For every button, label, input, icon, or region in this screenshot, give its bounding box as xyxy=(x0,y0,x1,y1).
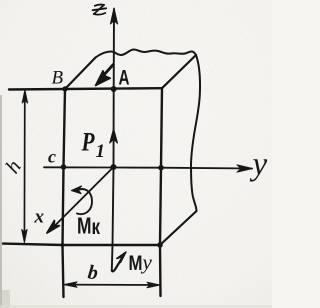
paper shading bottom-left xyxy=(0,95,2,308)
svg-text:M: M xyxy=(129,252,143,275)
svg-text:к: к xyxy=(92,216,101,239)
svg-text:1: 1 xyxy=(96,141,106,162)
wire: z line continued through lower face half xyxy=(112,167,114,271)
node centre C xyxy=(111,164,117,170)
wire: front face left edge + b extension xyxy=(63,89,66,297)
wire: front face right edge + b extension xyxy=(160,88,162,296)
node right mid xyxy=(158,165,164,171)
wire: torn back-top edge (wavy) xyxy=(96,50,197,58)
z axis xyxy=(113,9,116,167)
force arrow at A (tangential, pointing down-left) xyxy=(102,65,113,78)
moment My arrow xyxy=(112,257,123,272)
wire: top-right depth diagonal xyxy=(162,55,196,88)
y axis xyxy=(44,167,252,168)
node B corner xyxy=(62,86,67,91)
svg-text:y: y xyxy=(250,147,268,183)
wire: front face top edge with h extension line xyxy=(9,88,162,89)
node left mid xyxy=(61,164,67,170)
svg-text:P: P xyxy=(81,128,96,157)
dimension h line with arrows xyxy=(23,92,25,241)
moment Mk arc (torsion about x) xyxy=(77,189,93,214)
x axis xyxy=(49,167,114,232)
svg-text:c: c xyxy=(48,147,56,167)
wire: torn back-right edge (wavy) xyxy=(191,55,200,211)
svg-text:B: B xyxy=(52,68,64,89)
svg-text:y: y xyxy=(141,250,153,274)
svg-text:x: x xyxy=(34,207,45,228)
node bottom-right corner xyxy=(157,242,163,248)
label z (hand-drawn z with stroke) xyxy=(93,5,107,15)
wire: top-left depth diagonal from B xyxy=(65,58,96,90)
dimension b line with arrows xyxy=(66,284,158,286)
force P1 arrowhead on z line xyxy=(110,129,118,143)
wire: front face bottom edge with h extension line xyxy=(3,244,160,245)
svg-text:A: A xyxy=(119,67,130,90)
svg-text:M: M xyxy=(77,213,92,239)
node bottom-left corner xyxy=(61,243,65,247)
node A xyxy=(111,86,117,92)
wire: bottom-right depth diagonal xyxy=(160,211,197,245)
